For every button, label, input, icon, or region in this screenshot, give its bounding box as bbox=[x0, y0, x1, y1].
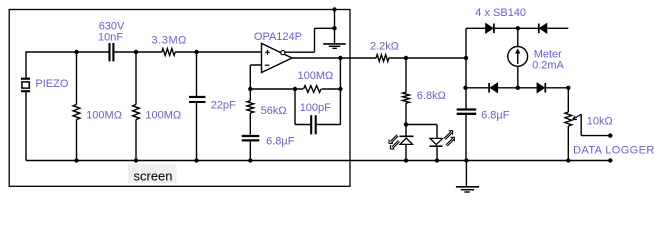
terminal data logger lower bbox=[608, 158, 612, 162]
node junction rail 1 bbox=[74, 158, 78, 162]
node junction LED2 bottom bbox=[435, 158, 439, 162]
wire bridge top rail bbox=[466, 27, 568, 29]
resistor 100M feedback bbox=[304, 86, 322, 93]
label 100M ohm (first) bbox=[86, 109, 122, 121]
label 100M ohm (second) bbox=[145, 109, 181, 121]
meter M1 0.2mA bbox=[508, 28, 528, 88]
node junction feedback right bbox=[338, 87, 342, 91]
label 56k ohm bbox=[261, 105, 287, 117]
svg-text:22pF: 22pF bbox=[211, 100, 236, 112]
diode D4 (bottom right) bbox=[537, 83, 545, 93]
op-amp power pin circle bbox=[281, 51, 285, 55]
capacitor C1 10nF 630V bbox=[110, 43, 114, 61]
resistor 2.2k bbox=[376, 55, 389, 62]
resistor 100M (second) bbox=[133, 52, 140, 161]
label Meter bbox=[534, 49, 562, 61]
label 10nF bbox=[98, 32, 123, 44]
wire inverting input bbox=[250, 65, 261, 89]
wire bottom ground rail bbox=[26, 160, 610, 162]
svg-text:PIEZO: PIEZO bbox=[35, 78, 68, 90]
capacitor 6.8uF (right) bbox=[457, 88, 477, 161]
svg-text:56kΩ: 56kΩ bbox=[261, 105, 287, 117]
node junction on shield top bbox=[332, 7, 336, 11]
LED D5 (cathode up) bbox=[400, 125, 414, 161]
wire pot wiper to terminal bbox=[581, 114, 610, 135]
svg-text:OPA124P: OPA124P bbox=[254, 31, 302, 43]
svg-text:100MΩ: 100MΩ bbox=[86, 109, 122, 121]
svg-text:100MΩ: 100MΩ bbox=[298, 70, 334, 82]
label 4 x SB140 bbox=[475, 7, 526, 19]
label 100pF bbox=[300, 102, 331, 114]
node junction bridge bottom left bbox=[463, 86, 467, 90]
node junction bridge bottom right bbox=[566, 86, 570, 90]
node junction top rail A bbox=[74, 50, 78, 54]
wire feedback rail bbox=[250, 88, 340, 90]
capacitor 100pF bbox=[295, 89, 340, 134]
node junction rail 3 bbox=[194, 158, 198, 162]
terminal data logger upper bbox=[608, 133, 612, 137]
label 6.8k ohm bbox=[417, 90, 446, 102]
label 100M ohm feedback bbox=[298, 70, 334, 82]
node junction power net bbox=[332, 26, 336, 30]
resistor 6.8k bbox=[403, 58, 410, 125]
wire bridge left node bbox=[465, 28, 467, 88]
svg-text:6.8µF: 6.8µF bbox=[266, 135, 295, 147]
node junction LED1 bottom bbox=[404, 158, 408, 162]
node junction 100pF left bbox=[293, 87, 297, 91]
node junction top rail B bbox=[134, 50, 138, 54]
wire output to bridge bbox=[389, 57, 466, 59]
op-amp U1 OPA124P bbox=[262, 43, 293, 72]
screen shield box bbox=[9, 10, 350, 187]
wire LED rail bbox=[406, 125, 437, 139]
label 3.3M ohm bbox=[152, 35, 187, 47]
wire feedback tap vertical bbox=[339, 58, 341, 89]
wire bridge bottom rail bbox=[466, 87, 568, 89]
svg-text:screen: screen bbox=[134, 169, 173, 184]
piezo sensor bbox=[21, 51, 30, 160]
svg-text:6.8µF: 6.8µF bbox=[481, 110, 510, 122]
node junction rail 2 bbox=[134, 158, 138, 162]
diode D1 (top left) bbox=[486, 24, 494, 34]
label 2.2k ohm bbox=[370, 41, 399, 53]
svg-text:100MΩ: 100MΩ bbox=[145, 109, 181, 121]
svg-text:100pF: 100pF bbox=[300, 102, 331, 114]
node junction rail 4 bbox=[248, 158, 252, 162]
label screen background bbox=[128, 164, 177, 183]
LED D6 (cathode down) bbox=[430, 138, 443, 160]
resistor 56k bbox=[247, 89, 254, 135]
wire bridge right to pot bbox=[567, 88, 569, 112]
ground symbol near op-amp bbox=[323, 28, 346, 48]
capacitor 22pF bbox=[189, 52, 206, 161]
diode D3 (bottom left) bbox=[489, 83, 498, 93]
wire op-amp output bbox=[292, 57, 376, 59]
label 630V bbox=[99, 21, 125, 33]
label 22pF bbox=[211, 100, 236, 112]
svg-text:2.2kΩ: 2.2kΩ bbox=[370, 41, 399, 53]
svg-text:10kΩ: 10kΩ bbox=[587, 116, 613, 128]
label DATA LOGGER bbox=[573, 145, 654, 157]
label 0.2mA bbox=[532, 60, 564, 72]
label screen bbox=[134, 169, 173, 184]
potentiometer 10k bbox=[565, 112, 581, 161]
node junction LED rail bbox=[404, 122, 408, 126]
node junction ground tap bbox=[464, 158, 468, 162]
node junction feedback left bbox=[248, 87, 252, 91]
svg-text:0.2mA: 0.2mA bbox=[532, 60, 564, 72]
svg-text:DATA LOGGER: DATA LOGGER bbox=[573, 145, 654, 157]
ground symbol bottom bbox=[456, 161, 479, 193]
node junction top rail C bbox=[194, 50, 198, 54]
LED D5 light arrows bbox=[389, 135, 400, 149]
wire top rail bbox=[26, 51, 262, 53]
label 10k ohm bbox=[587, 116, 613, 128]
capacitor 6.8uF (left) bbox=[242, 136, 260, 161]
node junction bridge top mid bbox=[516, 26, 520, 30]
wire power pin to shield bbox=[285, 10, 335, 53]
node junction pot bottom bbox=[566, 158, 570, 162]
label PIEZO bbox=[35, 78, 68, 90]
label 6.8uF (left) bbox=[266, 135, 295, 147]
LED D6 light arrows bbox=[444, 131, 454, 147]
svg-text:10nF: 10nF bbox=[98, 32, 123, 44]
node junction bridge input bbox=[464, 56, 468, 60]
svg-text:6.8kΩ: 6.8kΩ bbox=[417, 90, 446, 102]
diode D2 (top right) bbox=[539, 24, 547, 34]
label 6.8uF (right) bbox=[481, 110, 510, 122]
resistor 100M (first) bbox=[73, 52, 80, 161]
resistor 3.3M bbox=[162, 49, 175, 56]
node junction output feedback tap bbox=[338, 56, 342, 60]
node junction bridge bottom mid bbox=[516, 86, 520, 90]
svg-text:3.3MΩ: 3.3MΩ bbox=[152, 35, 187, 47]
svg-text:4 x SB140: 4 x SB140 bbox=[475, 7, 526, 19]
label OPA124P bbox=[254, 31, 302, 43]
node junction 6.8k top bbox=[404, 56, 408, 60]
